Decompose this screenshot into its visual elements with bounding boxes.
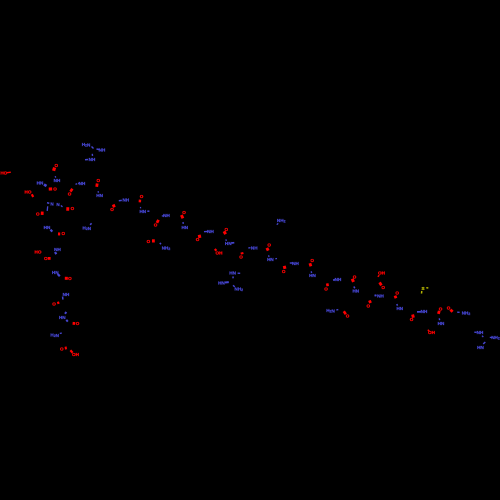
svg-text:O: O [367, 303, 371, 308]
svg-text:HO: HO [35, 250, 42, 255]
svg-text:O: O [324, 286, 328, 291]
svg-text:HN: HN [225, 241, 232, 246]
svg-text:HN: HN [477, 345, 484, 350]
svg-text:NH: NH [477, 330, 484, 335]
svg-text:HN: HN [139, 209, 146, 214]
svg-text:O: O [110, 207, 114, 212]
svg-text:NH2: NH2 [491, 335, 500, 341]
svg-text:O: O [182, 210, 186, 215]
svg-text:O: O [282, 269, 286, 274]
svg-text:NH2: NH2 [235, 287, 244, 293]
svg-text:O: O [62, 231, 66, 236]
svg-text:OH: OH [378, 271, 386, 276]
svg-text:NH: NH [207, 229, 214, 234]
svg-text:NH: NH [89, 157, 96, 162]
svg-text:NH2: NH2 [277, 218, 286, 224]
svg-text:NH: NH [292, 261, 299, 266]
svg-text:H2N: H2N [82, 142, 91, 148]
svg-text:O: O [147, 239, 151, 244]
svg-text:NH: NH [251, 246, 258, 251]
svg-text:H2N: H2N [326, 308, 335, 314]
svg-text:O: O [52, 302, 56, 307]
svg-text:HN: HN [181, 225, 188, 230]
svg-text:O: O [53, 186, 57, 191]
svg-text:HN: HN [218, 281, 225, 286]
svg-text:O: O [140, 194, 144, 199]
svg-text:HN: HN [352, 289, 359, 294]
svg-text:O: O [239, 254, 243, 259]
svg-text:NH: NH [63, 292, 70, 297]
svg-text:H2N: H2N [50, 332, 59, 338]
svg-text:HO: HO [25, 190, 32, 195]
svg-text:HN: HN [309, 273, 316, 278]
svg-text:NH: NH [122, 198, 129, 203]
svg-text:O: O [267, 243, 271, 248]
svg-text:NH: NH [54, 178, 61, 183]
svg-text:NH: NH [335, 277, 342, 282]
svg-text:NH: NH [163, 213, 170, 218]
svg-text:O: O [36, 212, 40, 217]
svg-text:NH2: NH2 [462, 310, 471, 316]
svg-text:H2N: H2N [83, 226, 92, 232]
svg-text:OH: OH [216, 251, 224, 256]
svg-text:O: O [447, 306, 451, 311]
svg-text:O: O [381, 285, 385, 290]
svg-text:HN: HN [396, 306, 403, 311]
svg-text:O: O [346, 314, 350, 319]
svg-text:O: O [439, 306, 443, 311]
svg-text:NH: NH [99, 147, 106, 152]
svg-text:NH: NH [377, 294, 384, 299]
svg-text:O: O [395, 291, 399, 296]
svg-text:O: O [44, 256, 48, 261]
svg-text:HN: HN [229, 271, 236, 276]
svg-text:HN: HN [44, 225, 51, 230]
svg-text:NH: NH [54, 247, 61, 252]
svg-text:NH: NH [421, 309, 428, 314]
svg-text:HO: HO [0, 171, 7, 176]
svg-text:NH: NH [79, 181, 86, 186]
svg-text:O: O [71, 206, 75, 211]
svg-text:HN: HN [438, 321, 445, 326]
svg-text:HN: HN [59, 315, 66, 320]
svg-text:O: O [97, 178, 101, 183]
svg-text:HN: HN [267, 257, 274, 262]
svg-text:NH2: NH2 [162, 246, 171, 252]
svg-text:O: O [68, 276, 72, 281]
svg-text:O: O [310, 258, 314, 263]
svg-text:O: O [60, 346, 64, 351]
svg-text:OH: OH [72, 352, 80, 357]
svg-text:O: O [76, 321, 80, 326]
svg-text:S: S [422, 286, 425, 291]
svg-text:HN: HN [37, 181, 44, 186]
svg-text:HN: HN [96, 193, 103, 198]
svg-text:O: O [55, 163, 59, 168]
svg-text:O: O [154, 223, 158, 228]
